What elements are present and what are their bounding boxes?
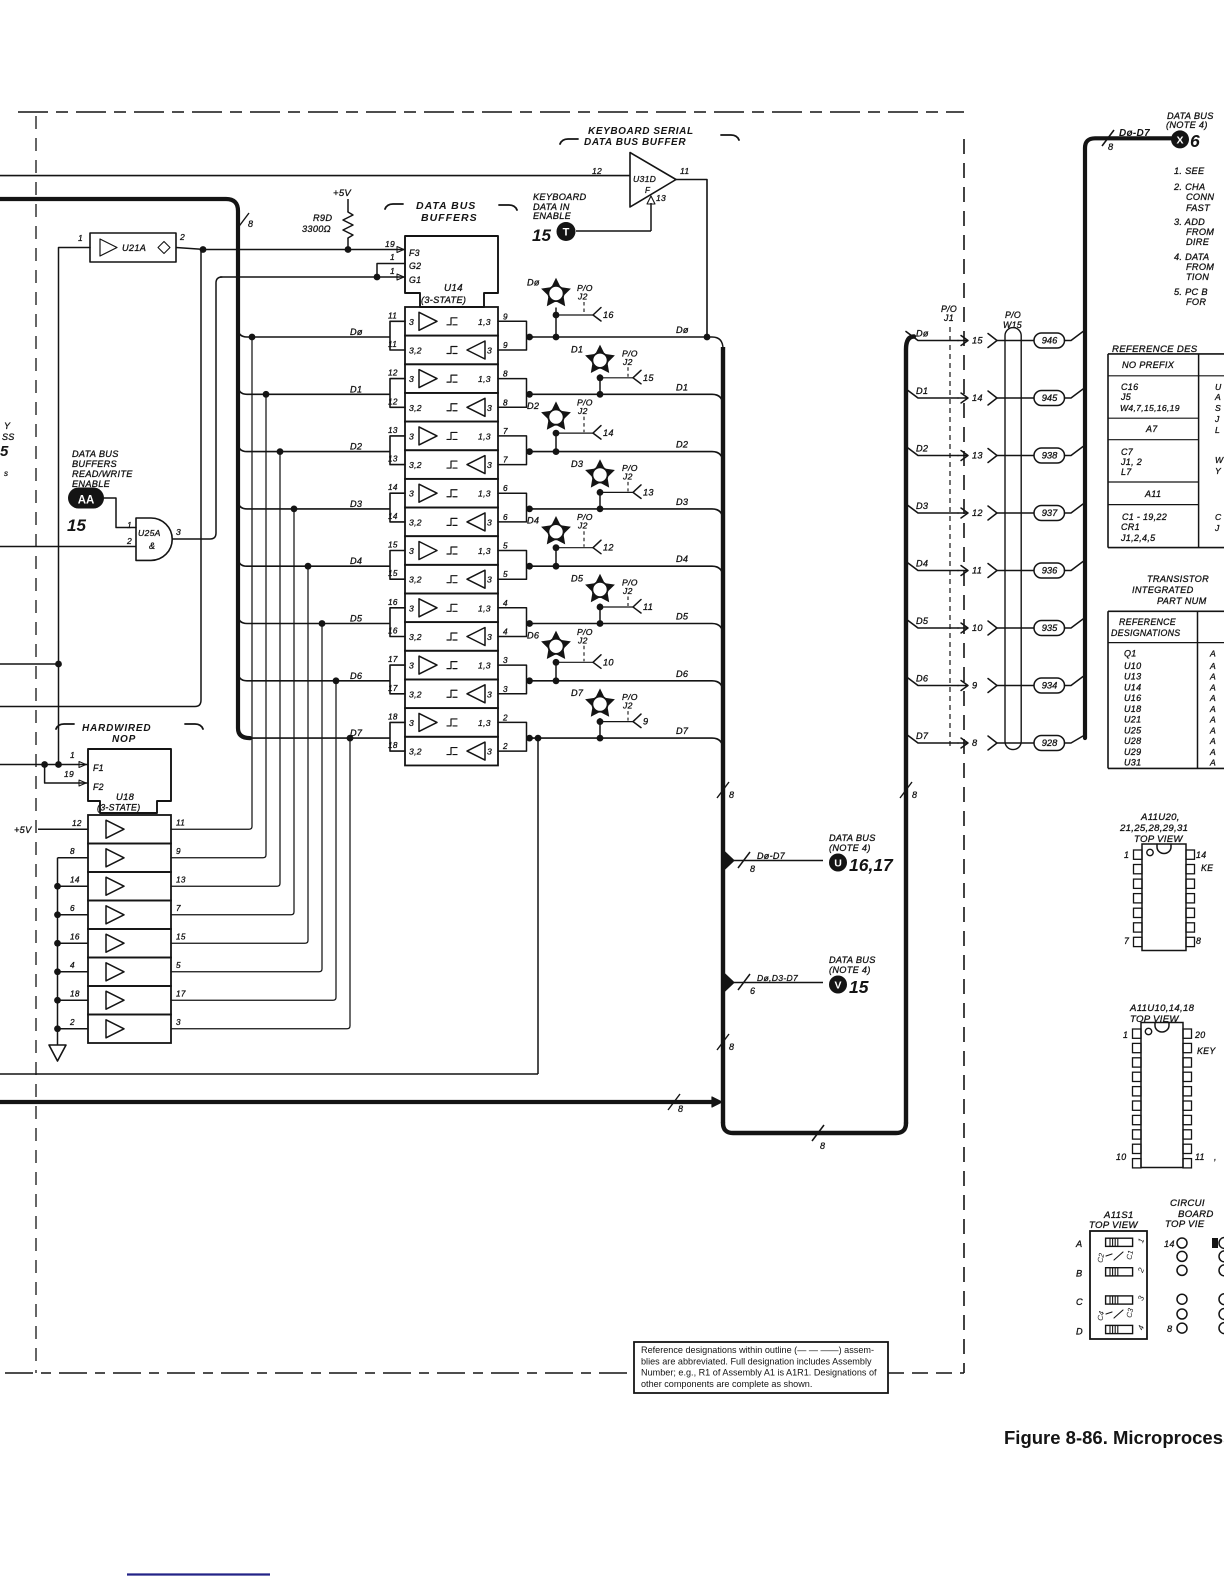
thick output data bus vertical right xyxy=(1085,138,1171,738)
connector arrow J2 pin 12 xyxy=(593,540,601,554)
svg-text:(NOTE 4): (NOTE 4) xyxy=(829,843,871,853)
bus width slash 8 on tap xyxy=(738,852,750,868)
node junction D7 output xyxy=(526,735,533,742)
wire U18 pin 6 tie xyxy=(58,914,89,916)
svg-text:Dø-D7: Dø-D7 xyxy=(1119,128,1150,139)
svg-text:3: 3 xyxy=(176,1018,181,1027)
svg-text:1: 1 xyxy=(78,233,83,243)
svg-text:Figure 8-86. Microprocess: Figure 8-86. Microprocess xyxy=(1004,1427,1224,1448)
resistor R9D 330 ohm xyxy=(347,199,349,212)
svg-text:3,2: 3,2 xyxy=(409,403,422,413)
svg-text:4: 4 xyxy=(503,627,508,636)
svg-text:U14: U14 xyxy=(444,283,463,294)
bus width slash 8 top xyxy=(1102,130,1114,146)
svg-text:+5V: +5V xyxy=(333,188,352,199)
svg-text:2: 2 xyxy=(69,1018,75,1027)
svg-text:DATA BUS: DATA BUS xyxy=(829,833,876,843)
svg-text:DESIGNATIONS: DESIGNATIONS xyxy=(1111,628,1180,638)
wire D3 line from U14 output to data bus xyxy=(530,509,724,521)
connector arrow J2 pin 14 xyxy=(593,426,601,440)
connector pin bracket xyxy=(988,736,997,750)
wire D7 line from U14 output to data bus xyxy=(530,738,724,750)
svg-text:15: 15 xyxy=(67,516,86,535)
svg-text:934: 934 xyxy=(1042,681,1058,691)
dashed connector boundary J2 D0 xyxy=(583,302,585,314)
arrowhead into J1 pin 10 xyxy=(958,623,968,633)
svg-text:U16: U16 xyxy=(1124,693,1141,703)
wire D6 line from U14 output to data bus xyxy=(530,681,724,693)
svg-text:A11: A11 xyxy=(1144,489,1161,499)
svg-text:U10: U10 xyxy=(1124,661,1141,671)
node junction tie xyxy=(54,968,61,975)
bus width slash 8 right bus xyxy=(900,782,912,798)
svg-text:A: A xyxy=(1209,661,1216,671)
connector P/O J2 star D6 xyxy=(541,631,571,659)
svg-text:13: 13 xyxy=(388,426,398,435)
wire U21A pin1 to F1 net vertical xyxy=(59,248,91,765)
connector P/O J2 star D4 xyxy=(541,516,571,544)
svg-text:D1: D1 xyxy=(571,344,583,354)
svg-text:J2: J2 xyxy=(622,701,633,711)
wire tap to J2 pin 9 xyxy=(600,721,633,723)
svg-text:1: 1 xyxy=(70,750,75,760)
svg-text:7: 7 xyxy=(1124,936,1130,946)
arrowhead into J1 pin 8 xyxy=(958,738,968,748)
svg-text:14: 14 xyxy=(388,512,398,521)
dashed connector boundary J2 D3 xyxy=(627,482,629,492)
wire J1 pin to cable W15 xyxy=(997,512,1034,514)
svg-text:19: 19 xyxy=(385,239,395,249)
wire oval 945 to output bus xyxy=(1065,389,1084,398)
svg-text:C1 - 19,22: C1 - 19,22 xyxy=(1122,512,1167,522)
svg-text:12: 12 xyxy=(592,166,602,176)
svg-text:19: 19 xyxy=(64,769,74,779)
bus width slash 8 left bus lower xyxy=(717,1034,729,1050)
svg-text:TION: TION xyxy=(1186,272,1209,282)
arrowhead into J1 pin 12 xyxy=(958,508,968,518)
bus width slash 8 left bus upper xyxy=(717,782,729,798)
svg-text:W15: W15 xyxy=(1003,320,1022,330)
svg-text:HARDWIRED: HARDWIRED xyxy=(82,723,151,734)
connector P/O J2 star D5 xyxy=(585,574,615,602)
svg-text:D4: D4 xyxy=(676,554,688,564)
svg-text:15: 15 xyxy=(176,932,186,941)
node junction on U21A pin1 net xyxy=(55,661,62,668)
svg-text:D5: D5 xyxy=(916,616,929,626)
svg-text:935: 935 xyxy=(1042,623,1058,633)
svg-text:8: 8 xyxy=(820,1141,825,1151)
svg-text:2: 2 xyxy=(502,713,508,722)
svg-text:4: 4 xyxy=(70,961,75,970)
table reference designations box xyxy=(1108,353,1224,355)
terminal oval 936 xyxy=(1034,563,1065,578)
connector P/O J2 star D0 xyxy=(541,278,571,306)
svg-text:3: 3 xyxy=(487,632,492,642)
svg-text:3: 3 xyxy=(409,718,414,728)
svg-text:U31: U31 xyxy=(1124,758,1141,768)
svg-text:3: 3 xyxy=(487,517,492,527)
arrowhead into J1 pin 13 xyxy=(958,451,968,461)
svg-text:J: J xyxy=(1214,414,1220,424)
svg-text:CIRCUI: CIRCUI xyxy=(1170,1198,1205,1209)
wire G1 from U25A output xyxy=(220,276,405,278)
svg-text:T: T xyxy=(563,227,570,239)
svg-text:U31D: U31D xyxy=(633,174,656,184)
svg-text:936: 936 xyxy=(1042,566,1058,576)
svg-text:FROM: FROM xyxy=(1186,262,1214,272)
svg-text:3: 3 xyxy=(503,685,508,694)
wire D7 return line to left edge xyxy=(0,1073,538,1075)
svg-text:8: 8 xyxy=(503,370,508,379)
svg-text:21,25,28,29,31: 21,25,28,29,31 xyxy=(1119,823,1188,834)
svg-text:13: 13 xyxy=(388,455,398,464)
terminal oval 928 xyxy=(1034,736,1065,751)
svg-text:7: 7 xyxy=(176,904,181,913)
svg-text:14: 14 xyxy=(70,875,80,884)
svg-text:Dø,D3-D7: Dø,D3-D7 xyxy=(757,973,799,983)
svg-text:3: 3 xyxy=(176,527,181,537)
switch slider 4 xyxy=(1106,1325,1133,1333)
dashed connector boundary J2 D1 xyxy=(627,367,629,377)
wire U25A pin 2 input from left edge xyxy=(0,546,136,548)
svg-text:J2: J2 xyxy=(622,357,633,367)
terminal oval 945 xyxy=(1034,391,1065,406)
node junction D2 NOP xyxy=(277,448,284,455)
wire tap to J2 pin 13 xyxy=(600,491,633,493)
node junction R9D to F3 line xyxy=(345,246,352,253)
svg-text:3: 3 xyxy=(487,747,492,757)
wire D0 line from U14 output to data bus xyxy=(530,337,724,349)
connector arrow J2 pin 16 xyxy=(593,308,601,322)
wire U14 output pair 7 to D2 node xyxy=(498,436,533,465)
wire D1 input to U14 pins 12 xyxy=(238,379,405,408)
bus width slash 8 bottom bus xyxy=(812,1125,824,1141)
svg-text:3,2: 3,2 xyxy=(409,689,422,699)
node junction D4 NOP xyxy=(305,563,312,570)
svg-text:D5: D5 xyxy=(676,612,689,622)
wire tap to J2 pin 14 xyxy=(556,432,593,434)
svg-text:2: 2 xyxy=(502,742,508,751)
svg-text:8: 8 xyxy=(1167,1324,1173,1334)
wire D4 line from U14 output to data bus xyxy=(530,566,724,578)
wire U21A output exits left at y=706 xyxy=(0,250,201,707)
svg-text:3: 3 xyxy=(409,603,414,613)
svg-text:FROM: FROM xyxy=(1186,227,1214,237)
node junction star D3 tap xyxy=(597,489,604,496)
connector arrow J2 pin 9 xyxy=(633,714,641,728)
svg-text:A: A xyxy=(1209,715,1216,725)
svg-text:D3: D3 xyxy=(571,459,584,469)
svg-text:8: 8 xyxy=(750,864,755,874)
wire U31D input from left edge xyxy=(0,175,630,177)
svg-text:REFERENCE: REFERENCE xyxy=(1119,617,1176,627)
wire star D6 stem to D line xyxy=(555,660,557,681)
flag U 16,17 data bus destination xyxy=(829,854,847,872)
node junction D7 NOP xyxy=(347,735,354,742)
node junction D3 output xyxy=(526,506,533,513)
table transistor box xyxy=(1108,610,1224,612)
switch slider 1 xyxy=(1106,1238,1133,1246)
svg-text:NO PREFIX: NO PREFIX xyxy=(1122,360,1175,370)
svg-text:U29: U29 xyxy=(1124,747,1141,757)
arrowhead into J1 pin 9 xyxy=(958,681,968,691)
node junction D1 output xyxy=(526,391,533,398)
svg-text:D6: D6 xyxy=(676,669,689,679)
svg-text:8: 8 xyxy=(972,738,978,748)
svg-text:BUFFERS: BUFFERS xyxy=(421,212,478,224)
svg-text:D6: D6 xyxy=(916,674,929,684)
svg-text:15: 15 xyxy=(643,373,654,383)
wire U18 output pin 15 to D4 xyxy=(171,566,308,943)
wire tap to J2 pin 10 xyxy=(556,661,593,663)
svg-text:J1,2,4,5: J1,2,4,5 xyxy=(1120,533,1156,543)
wire U18 output pin 11 to D0 xyxy=(171,337,252,829)
switch A11S1 body xyxy=(1090,1231,1147,1339)
svg-text:7: 7 xyxy=(503,427,508,436)
arrowhead into J1 pin 11 xyxy=(958,566,968,576)
svg-text:U: U xyxy=(1215,382,1222,392)
node junction U21A output xyxy=(200,246,207,253)
node junction star D1 tap xyxy=(597,374,604,381)
svg-text:18: 18 xyxy=(70,989,80,998)
wire U18 output pin 9 to D1 xyxy=(171,394,266,858)
svg-text:5: 5 xyxy=(503,542,508,551)
svg-text:4. DATA: 4. DATA xyxy=(1174,252,1209,262)
node junction tie xyxy=(54,997,61,1004)
svg-text:9: 9 xyxy=(972,681,977,691)
svg-text:10: 10 xyxy=(1116,1152,1126,1162)
svg-text:3. ADD: 3. ADD xyxy=(1174,217,1205,227)
svg-text:11: 11 xyxy=(388,311,397,320)
node junction D6 output xyxy=(526,677,533,684)
svg-text:TRANSISTOR: TRANSISTOR xyxy=(1147,574,1209,584)
svg-text:5: 5 xyxy=(503,570,508,579)
svg-text:928: 928 xyxy=(1042,738,1058,748)
svg-text:TOP VIE: TOP VIE xyxy=(1165,1219,1205,1230)
wire J1 pin to cable W15 xyxy=(997,455,1034,457)
svg-text:11: 11 xyxy=(680,166,689,176)
flag X 6 data bus destination xyxy=(1171,130,1189,148)
svg-text:14: 14 xyxy=(1196,850,1206,860)
svg-text:2. CHA: 2. CHA xyxy=(1173,182,1205,192)
wire D6 branch from right bus to J1 pin 9 xyxy=(906,677,958,686)
dashed connector boundary J2 D2 xyxy=(583,417,585,433)
svg-text:18: 18 xyxy=(388,741,398,750)
svg-text:W: W xyxy=(1215,455,1224,465)
svg-text:DATA BUS: DATA BUS xyxy=(416,200,476,212)
svg-text:A: A xyxy=(1209,736,1216,746)
svg-text:11: 11 xyxy=(176,818,185,827)
flag AA 15 read/write enable xyxy=(68,488,104,509)
svg-text:NOP: NOP xyxy=(112,734,136,745)
svg-text:Number; e.g., R1 of Assembly A: Number; e.g., R1 of Assembly A1 is A1R1.… xyxy=(641,1368,877,1378)
svg-text:945: 945 xyxy=(1042,393,1058,403)
wire U14 output pair 9 to D0 node xyxy=(498,321,533,350)
wire U18 output pin 17 to D6 xyxy=(171,681,336,1000)
assembly A11 outline bottom dashed border (right of note box) xyxy=(888,1372,964,1374)
IC U14 3-state data bus buffer rows xyxy=(405,307,498,336)
node junction tie xyxy=(54,1025,61,1032)
svg-text:3: 3 xyxy=(409,374,414,384)
wire D4 branch from right bus to J1 pin 11 xyxy=(906,562,958,571)
connector P/O J2 star D7 xyxy=(585,688,615,716)
svg-text:11: 11 xyxy=(643,602,653,612)
svg-text:1: 1 xyxy=(390,266,395,276)
svg-text:1,3: 1,3 xyxy=(478,546,491,556)
svg-text:KEYBOARD: KEYBOARD xyxy=(533,192,587,202)
svg-text:J1: J1 xyxy=(943,313,954,323)
wire thick 8-bit bus from left edge to data bus xyxy=(0,1100,712,1104)
svg-text:18: 18 xyxy=(388,712,398,721)
svg-text:FAST: FAST xyxy=(1186,203,1211,213)
svg-text:14: 14 xyxy=(388,483,398,492)
svg-text:15: 15 xyxy=(849,977,869,997)
svg-text:9: 9 xyxy=(503,341,508,350)
wire U18 pin 18 tie xyxy=(58,999,89,1001)
svg-text:Q1: Q1 xyxy=(1124,649,1137,659)
svg-text:3,2: 3,2 xyxy=(409,460,422,470)
svg-text:3,2: 3,2 xyxy=(409,575,422,585)
wire U14 output pair 8 to D1 node xyxy=(498,379,533,408)
svg-text:6: 6 xyxy=(750,986,755,996)
wire D0 input to U14 pins 11 xyxy=(238,321,405,350)
thick data bus right vertical xyxy=(906,337,914,1124)
svg-text:,: , xyxy=(1214,1152,1217,1162)
wire star D1 stem to D line xyxy=(599,374,601,394)
node junction tie xyxy=(54,883,61,890)
svg-text:U28: U28 xyxy=(1124,736,1141,746)
svg-text:U13: U13 xyxy=(1124,672,1141,682)
wire star D7 stem to D line xyxy=(599,718,601,738)
wire T flag to pin13 xyxy=(576,230,651,232)
svg-text:10: 10 xyxy=(603,657,614,667)
svg-text:8: 8 xyxy=(503,398,508,407)
wire U18 output pin 13 to D2 xyxy=(171,452,280,887)
wire U25A output up to G1 xyxy=(172,277,222,539)
svg-text:KEY: KEY xyxy=(1197,1046,1216,1056)
bus tap arrow to U16,17 xyxy=(725,852,734,869)
svg-text:12: 12 xyxy=(972,508,983,518)
svg-text:12: 12 xyxy=(72,819,82,828)
svg-text:1: 1 xyxy=(127,520,132,530)
svg-text:8: 8 xyxy=(1108,142,1114,152)
svg-text:U21: U21 xyxy=(1124,715,1141,725)
terminal oval 934 xyxy=(1034,678,1065,693)
ground symbol xyxy=(49,1045,66,1061)
svg-text:8: 8 xyxy=(248,219,253,229)
wire U14 output pair 3 to D6 node xyxy=(498,665,533,694)
wire D5 line from U14 output to data bus xyxy=(530,624,724,636)
svg-text:A: A xyxy=(1209,704,1216,714)
pin 13 enable wire with arrowhead xyxy=(650,203,652,231)
svg-text:A: A xyxy=(1209,747,1216,757)
wire U18 pin 4 tie xyxy=(58,971,89,973)
wire D5 branch from right bus to J1 pin 10 xyxy=(906,619,958,628)
IC U18 hardwired NOP buffer rows xyxy=(88,815,171,844)
svg-text:J2: J2 xyxy=(577,635,588,645)
svg-text:D2: D2 xyxy=(916,444,928,454)
svg-text:17: 17 xyxy=(176,989,186,998)
wire tap to J2 pin 15 xyxy=(600,377,633,379)
wire oval 935 to output bus xyxy=(1065,619,1084,628)
svg-text:J2: J2 xyxy=(577,292,588,302)
bus width slash 6 on tap xyxy=(738,974,750,990)
svg-text:BUFFERS: BUFFERS xyxy=(72,459,118,469)
node junction star D4 tap xyxy=(553,544,560,551)
svg-text:D1: D1 xyxy=(350,384,362,394)
wire star D5 stem to D line xyxy=(599,604,601,624)
node junction D1 NOP xyxy=(263,391,270,398)
svg-text:6: 6 xyxy=(1190,131,1200,151)
svg-text:A: A xyxy=(1209,693,1216,703)
wire D7 input to U14 pins 18 xyxy=(238,722,405,751)
svg-text:1,3: 1,3 xyxy=(478,374,491,384)
svg-text:Dø: Dø xyxy=(916,329,929,339)
node junction D3 NOP xyxy=(291,506,298,513)
svg-text:D5: D5 xyxy=(350,614,363,624)
svg-text:U18: U18 xyxy=(1124,704,1141,714)
bus width slash 8 on entering bus xyxy=(237,213,249,229)
svg-text:13: 13 xyxy=(643,487,654,497)
connector P/O J2 star D3 xyxy=(585,459,615,487)
svg-text:6: 6 xyxy=(70,904,75,913)
wire J1 pin to cable W15 xyxy=(997,340,1034,342)
wire U14 output pair 4 to D5 node xyxy=(498,608,533,637)
terminal oval 938 xyxy=(1034,448,1065,463)
svg-text:(NOTE 4): (NOTE 4) xyxy=(829,965,871,975)
svg-text:SS: SS xyxy=(2,432,15,442)
svg-text:DIRE: DIRE xyxy=(1186,237,1210,247)
svg-text:other components are complete: other components are complete as shown. xyxy=(641,1379,812,1389)
svg-text:13: 13 xyxy=(972,451,983,461)
wire vertical from D7 line down to left-exit line xyxy=(537,738,539,1074)
node junction tie xyxy=(54,911,61,918)
wire U18 pin 16 tie xyxy=(58,942,89,944)
connector arrow J2 pin 10 xyxy=(593,655,601,669)
svg-text:16,17: 16,17 xyxy=(849,855,894,875)
svg-text:1,3: 1,3 xyxy=(478,431,491,441)
connector pin bracket xyxy=(988,391,997,405)
svg-text:U: U xyxy=(834,858,842,870)
node junction star D5 tap xyxy=(597,604,604,611)
svg-text:X: X xyxy=(1176,134,1183,146)
svg-text:F: F xyxy=(645,186,651,195)
wire D6 input to U14 pins 17 xyxy=(238,665,405,694)
assembly A11 outline left dashed border xyxy=(35,116,37,1373)
wire oval 928 to output bus xyxy=(1065,736,1084,743)
note box about reference designations xyxy=(634,1342,888,1393)
svg-text:15: 15 xyxy=(388,569,398,578)
svg-text:Dø: Dø xyxy=(527,278,540,288)
wire U14 output pair 6 to D3 node xyxy=(498,493,533,522)
assembly A11 outline bottom dashed border (left of note box) xyxy=(5,1372,634,1374)
svg-text:17: 17 xyxy=(388,655,398,664)
svg-text:1. SEE: 1. SEE xyxy=(1174,166,1205,176)
svg-text:15: 15 xyxy=(972,336,983,346)
wire ground tie vertical xyxy=(57,858,59,1045)
svg-text:7: 7 xyxy=(503,456,508,465)
svg-text:1,3: 1,3 xyxy=(478,661,491,671)
wire F1 input from left edge xyxy=(0,764,88,766)
svg-text:W4,7,15,16,19: W4,7,15,16,19 xyxy=(1120,403,1180,413)
node junction star D0 tap xyxy=(553,312,560,319)
svg-text:3: 3 xyxy=(487,460,492,470)
svg-text:KE: KE xyxy=(1201,863,1213,873)
wire D5 input to U14 pins 16 xyxy=(238,608,405,637)
svg-text:(NOTE 4): (NOTE 4) xyxy=(1166,120,1208,130)
svg-text:12: 12 xyxy=(388,397,398,406)
node junction star D7 tap xyxy=(597,718,604,725)
